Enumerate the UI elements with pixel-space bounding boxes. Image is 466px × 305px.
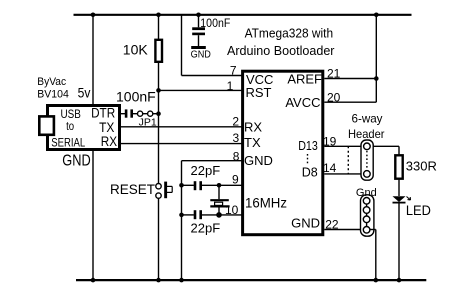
svg-text:RST: RST xyxy=(246,85,272,100)
svg-text:9: 9 xyxy=(232,173,239,187)
svg-text:Gnd: Gnd xyxy=(356,187,377,199)
svg-text:7: 7 xyxy=(230,64,237,78)
svg-text:1: 1 xyxy=(227,79,234,93)
svg-text:ATmega328 with: ATmega328 with xyxy=(245,25,334,40)
svg-text:22pF: 22pF xyxy=(191,163,221,178)
svg-text:21: 21 xyxy=(327,67,341,81)
svg-text:100nF: 100nF xyxy=(200,16,230,30)
svg-text:Header: Header xyxy=(348,127,385,141)
svg-text:330R: 330R xyxy=(406,158,437,173)
svg-text:22: 22 xyxy=(325,217,339,231)
svg-text:BV104: BV104 xyxy=(37,88,69,100)
svg-text:GND: GND xyxy=(291,216,320,231)
svg-text:LED: LED xyxy=(406,202,431,218)
svg-text:Arduino Bootloader: Arduino Bootloader xyxy=(227,43,335,58)
svg-text:3: 3 xyxy=(233,131,240,145)
svg-text:AVCC: AVCC xyxy=(285,95,320,110)
svg-text:14: 14 xyxy=(323,161,337,175)
svg-text:RX: RX xyxy=(101,133,118,149)
svg-text:to: to xyxy=(66,119,74,133)
svg-text:6-way: 6-way xyxy=(352,112,383,126)
svg-text:GND: GND xyxy=(191,50,211,61)
svg-text:TX: TX xyxy=(244,135,261,150)
svg-text:D13: D13 xyxy=(298,138,318,153)
svg-text:RX: RX xyxy=(244,120,262,135)
svg-text:RESET: RESET xyxy=(110,182,155,197)
svg-text:10K: 10K xyxy=(123,41,149,57)
svg-text:10: 10 xyxy=(225,203,239,217)
svg-text:16MHz: 16MHz xyxy=(245,194,287,210)
svg-text:19: 19 xyxy=(323,135,337,149)
svg-text:JP1: JP1 xyxy=(139,116,157,128)
svg-text:5v: 5v xyxy=(78,86,91,101)
svg-text:100nF: 100nF xyxy=(116,88,156,104)
svg-text:8: 8 xyxy=(233,149,240,163)
svg-text:GND: GND xyxy=(244,153,273,168)
svg-text:D8: D8 xyxy=(302,165,318,180)
svg-text:SERIAL: SERIAL xyxy=(51,135,85,149)
svg-text:AREF: AREF xyxy=(287,72,322,87)
svg-text:GND: GND xyxy=(62,153,90,170)
svg-text:22pF: 22pF xyxy=(191,221,221,236)
svg-text:20: 20 xyxy=(327,91,341,105)
svg-text:2: 2 xyxy=(232,115,239,129)
svg-text:ByVac: ByVac xyxy=(37,76,66,88)
